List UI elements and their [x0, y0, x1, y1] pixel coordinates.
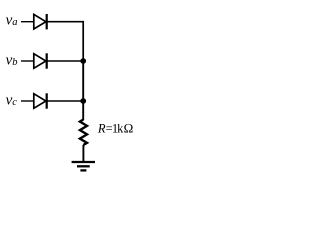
svg-text:R=1kΩ: R=1kΩ — [97, 121, 133, 136]
svg-text:va: va — [6, 13, 18, 29]
diode D3 cathode bar — [46, 93, 48, 108]
wire: bus vertical segment between junctions down to resistor — [82, 61, 84, 120]
svg-text:vb: vb — [6, 53, 18, 69]
ground symbol bar 1 — [72, 161, 95, 163]
svg-text:vc: vc — [6, 93, 18, 109]
wire: vc to diode D3 anode — [21, 100, 34, 102]
ground symbol bar 2 — [77, 165, 90, 167]
wire: vb to diode D2 anode — [21, 60, 34, 62]
diode D3 triangle — [34, 94, 46, 109]
junction dot at vb row — [80, 58, 86, 64]
wire: va to diode D1 anode — [21, 21, 34, 23]
diode D1 cathode bar — [46, 14, 48, 29]
resistor R zigzag — [80, 120, 87, 146]
wire: D2 cathode to bus — [47, 60, 83, 62]
wire: resistor to ground — [82, 145, 84, 161]
wire: D1 cathode to bus (with corner down) — [47, 22, 83, 61]
wire: D3 cathode to bus — [47, 100, 83, 102]
junction dot at vc row — [80, 98, 86, 104]
diode D2 cathode bar — [46, 53, 48, 68]
diode D2 triangle — [34, 54, 46, 69]
diode D1 triangle — [34, 14, 46, 29]
ground symbol bar 3 — [80, 169, 86, 171]
